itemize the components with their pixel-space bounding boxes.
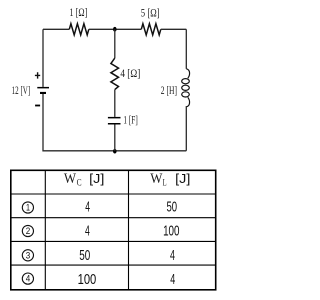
table column divider 2 [128, 171, 130, 290]
inductor L1 loop 3 [182, 92, 190, 97]
inductor L1 loop 1 [182, 79, 190, 84]
svg-text:L: L [163, 178, 167, 188]
svg-text:W: W [64, 171, 77, 187]
wire right lower [185, 106, 187, 151]
wire middle between R3 and C1 [114, 90, 116, 117]
resistor R1 1 ohm [69, 24, 89, 35]
inductor L1 top hook [186, 69, 189, 79]
inductor L1 loop 2 [182, 85, 190, 90]
svg-text:5 [Ω]: 5 [Ω] [141, 5, 160, 19]
svg-text:C: C [77, 178, 82, 188]
wire right upper [185, 29, 187, 69]
svg-text:12 [V]: 12 [V] [12, 83, 31, 97]
wire top-left segment [43, 28, 69, 30]
resistor R3 4 ohm [111, 58, 119, 90]
wire middle upper [114, 29, 116, 58]
row marker 2 circle [22, 225, 33, 236]
table row divider 4 [11, 264, 216, 266]
svg-text:4: 4 [170, 271, 175, 288]
svg-text:W: W [150, 171, 163, 187]
row marker 1 circle [22, 202, 33, 213]
svg-text:4: 4 [85, 222, 90, 239]
wire top-middle segment [89, 28, 142, 30]
svg-text:4 [Ω]: 4 [Ω] [120, 66, 140, 80]
wire bottom right half [115, 150, 187, 152]
table row divider 2 [11, 217, 216, 219]
row marker 4 circle [22, 273, 33, 284]
wire middle lower [114, 125, 116, 151]
svg-text:4: 4 [170, 247, 175, 264]
svg-text:100: 100 [78, 271, 97, 288]
svg-text:4: 4 [26, 274, 31, 284]
svg-text:2: 2 [26, 226, 31, 236]
svg-text:1 [Ω]: 1 [Ω] [69, 5, 87, 19]
table column divider 1 [44, 171, 46, 290]
inductor L1 bottom hook [186, 97, 189, 107]
svg-text:50: 50 [167, 199, 178, 216]
wire top-right segment [161, 28, 187, 30]
resistor R2 5 ohm [141, 24, 161, 35]
svg-text:4: 4 [85, 199, 90, 216]
node bottom junction dot [113, 149, 117, 154]
svg-text:3: 3 [26, 250, 31, 260]
label plus sign [35, 72, 40, 78]
table outer border [11, 170, 216, 289]
row marker 3 circle [22, 250, 33, 261]
svg-text:50: 50 [79, 247, 90, 264]
svg-text:1 [F]: 1 [F] [123, 112, 137, 126]
label minus sign [35, 105, 40, 107]
battery V1 short plate [40, 92, 46, 94]
svg-text:1: 1 [26, 203, 30, 213]
node top junction dot [113, 27, 116, 32]
svg-text:[J]: [J] [89, 171, 104, 186]
capacitor C1 top plate [108, 117, 121, 119]
table row divider 3 [11, 240, 216, 242]
svg-text:100: 100 [163, 222, 179, 239]
wire left lower [43, 94, 115, 151]
table row divider 1 [11, 193, 216, 195]
svg-text:2 [H]: 2 [H] [161, 83, 177, 97]
svg-text:[J]: [J] [175, 171, 190, 186]
capacitor C1 bottom plate [108, 123, 121, 125]
battery V1 long plate [37, 87, 49, 89]
wire left upper [42, 29, 44, 87]
